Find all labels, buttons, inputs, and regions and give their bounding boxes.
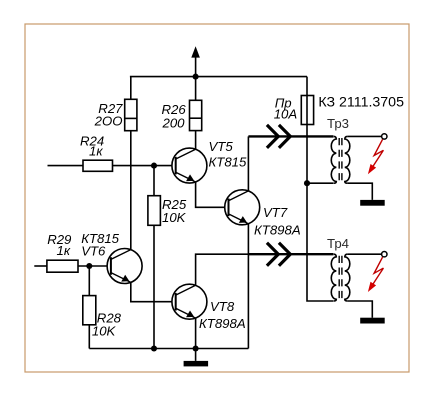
svg-text:КЗ 2111.3705: КЗ 2111.3705 — [318, 94, 404, 110]
wire R28 bottom drop — [88, 325, 90, 349]
svg-text:VT8: VT8 — [210, 299, 235, 314]
resistor R24 — [80, 133, 113, 171]
terminal HT output Tr4 — [382, 252, 387, 257]
wire bottom bus — [89, 348, 248, 350]
svg-text:Тр3: Тр3 — [327, 116, 349, 131]
resistor R27 — [94, 99, 137, 130]
fuse Pr 10A — [274, 96, 314, 125]
svg-text:200: 200 — [162, 116, 186, 131]
transistor VT6 — [81, 231, 142, 284]
wire fuse vertical — [306, 77, 308, 184]
svg-text:1к: 1к — [89, 143, 103, 158]
node junction J1 — [193, 74, 199, 80]
wire R26 bottom to VT5 collector — [195, 131, 197, 150]
node junction J5 — [151, 345, 157, 351]
svg-text:10K: 10K — [162, 210, 187, 225]
transistor VT5 — [172, 139, 247, 183]
svg-text:10А: 10А — [274, 106, 298, 121]
ground Tr3 secondary — [360, 200, 385, 206]
ground Tr4 secondary — [360, 318, 385, 324]
wire VT7 collector riser — [247, 136, 249, 191]
wire R28 top stub — [88, 266, 90, 296]
wire R27 bottom to VT6 collector — [130, 131, 132, 250]
wire R25 bottom drop — [153, 225, 155, 348]
wire R27 top stub — [130, 77, 132, 100]
connector arrows wire 1 — [248, 125, 333, 148]
resistor R29 — [47, 232, 78, 272]
node junction J6 — [193, 345, 199, 351]
svg-text:КТ815: КТ815 — [209, 154, 247, 169]
wire Tr3 primary bottom — [307, 182, 334, 184]
connector arrows wire 2 — [248, 243, 333, 266]
resistor R25 — [148, 196, 187, 226]
svg-text:2OO: 2OO — [94, 114, 123, 129]
wire supply arrow stub — [195, 57, 197, 77]
svg-text:КТ898А: КТ898А — [254, 223, 301, 238]
node junction J4 — [304, 180, 310, 186]
wire input base 1 — [48, 165, 84, 167]
wire VT7 emitter drop — [247, 224, 249, 349]
transistor VT7 — [225, 190, 301, 238]
terminal HT output Tr3 — [382, 134, 387, 139]
wire Tr4 primary feed — [307, 183, 334, 301]
svg-text:Тр4: Тр4 — [327, 236, 349, 251]
supply arrow — [191, 46, 200, 57]
ground bottom center — [184, 349, 209, 367]
wire VT8 collector riser — [196, 254, 249, 285]
svg-text:10K: 10K — [92, 323, 117, 338]
transformer Tr4 — [327, 236, 387, 324]
wire R24 to VT5 base — [113, 165, 176, 167]
svg-text:VT6: VT6 — [81, 243, 106, 258]
wire R29 to VT6 base — [78, 265, 111, 267]
wire VT5 emitter to VT7 base — [196, 182, 229, 207]
resistor R26 — [162, 100, 202, 130]
node junction J2 — [151, 163, 157, 169]
node junction J3 — [86, 263, 92, 269]
wire R26 top stub — [195, 77, 197, 101]
transformer Tr3 — [327, 116, 387, 206]
wire VT8 emitter drop — [195, 318, 197, 348]
wire input base 2 — [34, 265, 47, 267]
svg-text:VT5: VT5 — [209, 139, 234, 154]
transistor VT8 — [172, 284, 246, 331]
wire top bus — [130, 76, 307, 78]
svg-text:1к: 1к — [57, 243, 71, 258]
svg-text:КТ898А: КТ898А — [199, 316, 246, 331]
spark symbol Tr4 — [368, 257, 384, 292]
spark symbol Tr3 — [368, 139, 384, 174]
wire VT6 emitter to VT8 base — [131, 282, 176, 301]
resistor R28 — [83, 296, 122, 339]
border frame — [25, 24, 409, 372]
svg-text:VT7: VT7 — [263, 205, 288, 220]
wire R25 top stub — [153, 166, 155, 196]
